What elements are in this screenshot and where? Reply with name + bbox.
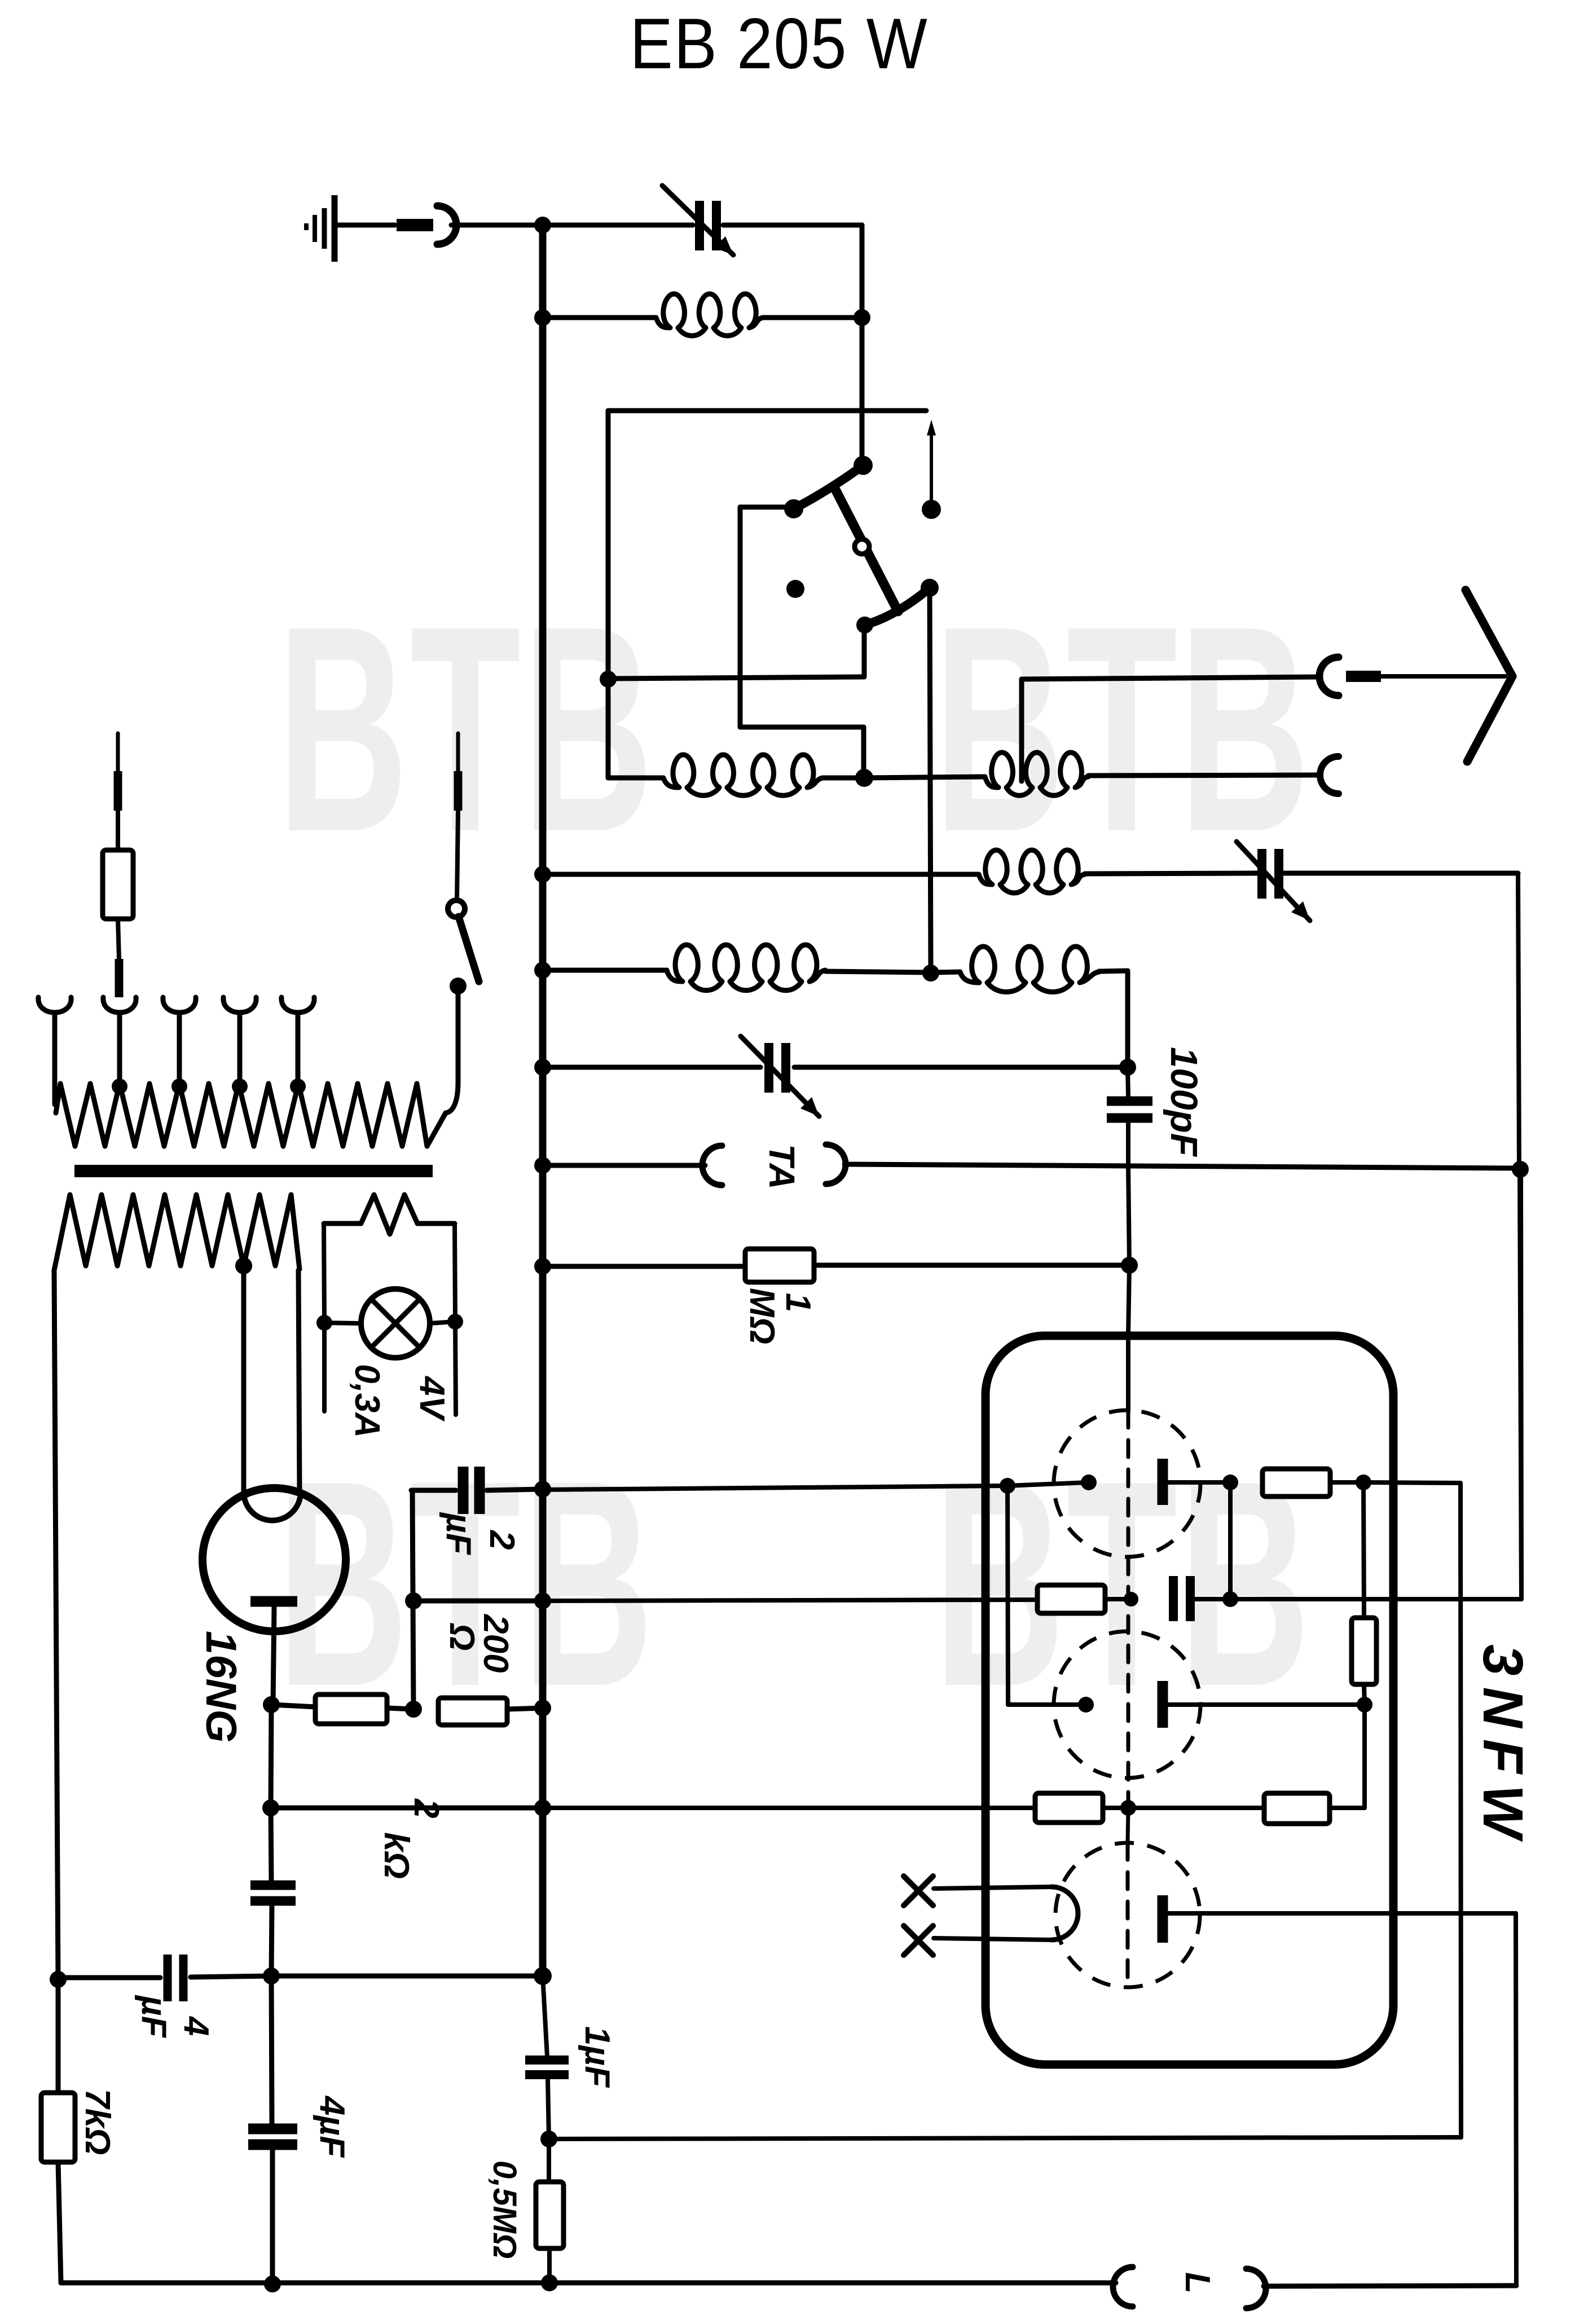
- svg-text:7kΩ: 7kΩ: [78, 2089, 117, 2155]
- svg-text:2: 2: [407, 1798, 446, 1818]
- svg-text:1µF: 1µF: [578, 2026, 617, 2088]
- svg-text:3NFW: 3NFW: [1471, 1644, 1534, 1849]
- svg-text:2: 2: [482, 1530, 521, 1550]
- svg-text:TA: TA: [762, 1144, 802, 1190]
- svg-text:BTB: BTB: [934, 565, 1312, 893]
- svg-text:4: 4: [177, 2015, 215, 2036]
- svg-text:0,3A: 0,3A: [347, 1364, 386, 1438]
- svg-text:0,5MΩ: 0,5MΩ: [486, 2160, 523, 2259]
- svg-text:EB 205 W: EB 205 W: [630, 3, 929, 83]
- svg-text:µF: µF: [439, 1512, 478, 1556]
- svg-text:16NG: 16NG: [197, 1631, 245, 1743]
- svg-text:BTB: BTB: [934, 1419, 1312, 1748]
- svg-text:1: 1: [778, 1293, 817, 1312]
- svg-text:MΩ: MΩ: [742, 1288, 781, 1344]
- svg-text:L: L: [1178, 2272, 1217, 2294]
- svg-text:4µF: 4µF: [313, 2095, 351, 2158]
- svg-text:µF: µF: [134, 1995, 173, 2039]
- svg-text:4V: 4V: [412, 1375, 451, 1421]
- svg-text:200: 200: [476, 1614, 515, 1672]
- svg-text:BTB: BTB: [277, 565, 655, 893]
- svg-text:Ω: Ω: [442, 1623, 481, 1650]
- svg-text:100pF: 100pF: [1163, 1047, 1205, 1157]
- svg-text:kΩ: kΩ: [377, 1832, 416, 1879]
